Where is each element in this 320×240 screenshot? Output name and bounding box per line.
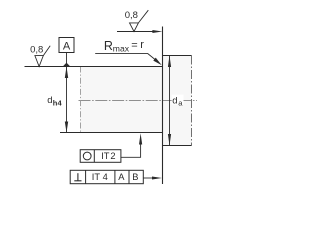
perpendicularity symbol (77, 173, 79, 181)
perpendicularity leader arrowhead (152, 177, 162, 180)
d_a top arrowhead (168, 56, 171, 68)
svg-text:r: r (140, 39, 144, 51)
svg-text:h4: h4 (53, 98, 63, 107)
shoulder right boundary (dash-dot) (191, 56, 193, 146)
svg-text:=: = (131, 39, 137, 51)
dimension line d_h4 (66, 67, 68, 133)
perpendicularity leader (143, 177, 154, 179)
Rmax leader diagonal (148, 53, 156, 60)
axis centerline (dash-dot) (79, 100, 198, 102)
circularity leader (121, 143, 141, 157)
perpendicularity frame dividers (85, 170, 87, 183)
datum A triangle (63, 63, 70, 67)
d_h4 bottom arrowhead (65, 122, 68, 133)
shoulder body fill (163, 56, 192, 146)
svg-text:B: B (132, 172, 138, 182)
svg-text:0,8: 0,8 (125, 10, 138, 21)
shaft left break line (dash-dot) (80, 67, 82, 133)
svg-text:A: A (118, 172, 125, 182)
svg-text:A: A (63, 41, 71, 53)
svg-text:d: d (47, 95, 52, 106)
svg-text:IT: IT (101, 151, 110, 161)
svg-text:2: 2 (110, 151, 115, 161)
d_a bottom arrowhead (168, 134, 171, 146)
d_h4 top arrowhead (65, 67, 68, 79)
svg-text:R: R (104, 39, 113, 53)
circularity frame box (80, 150, 121, 163)
svg-text:IT: IT (92, 172, 101, 182)
shoulder left face line (162, 27, 164, 185)
top roughness leader line (117, 31, 154, 33)
shaft body fill (80, 67, 163, 133)
circularity frame divider (93, 150, 95, 163)
shoulder top edge (163, 55, 192, 57)
shoulder bottom edge (163, 145, 192, 147)
shaft top surface line (25, 66, 164, 68)
dimension line d_a (169, 56, 171, 146)
Rmax underline (95, 52, 147, 54)
datum A leader (66, 53, 68, 64)
Rmax arrowhead at fillet (153, 58, 162, 66)
top roughness symbol (130, 23, 139, 32)
svg-text:0,8: 0,8 (30, 44, 43, 55)
svg-text:4: 4 (103, 172, 108, 182)
shaft bottom surface line (60, 132, 163, 134)
left roughness symbol (35, 56, 43, 67)
svg-text:max: max (113, 43, 130, 53)
circularity leader arrowhead (139, 133, 142, 144)
datum A box (59, 38, 74, 53)
svg-text:d: d (172, 95, 177, 106)
circularity symbol (83, 152, 91, 160)
top roughness leader arrowhead (152, 30, 162, 33)
label d_a (172, 95, 184, 105)
perpendicularity frame box (70, 170, 143, 183)
